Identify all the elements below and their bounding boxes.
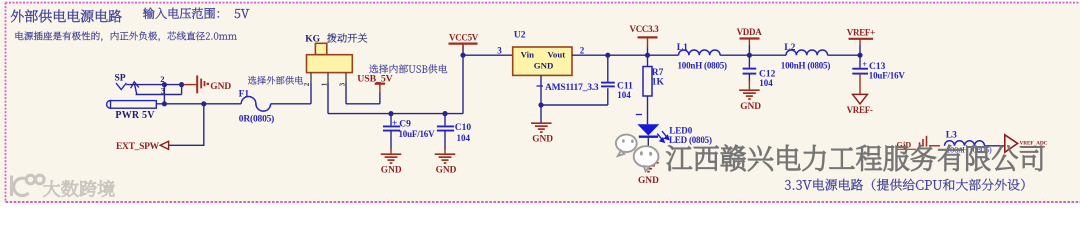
svg-text:AMS1117_3.3: AMS1117_3.3 — [545, 83, 599, 93]
svg-text:EXT_SPW: EXT_SPW — [116, 142, 160, 152]
svg-text:Vin: Vin — [521, 50, 534, 60]
wire VDDA riser — [748, 45, 750, 55]
note 电源插座极性说明 — [16, 31, 237, 41]
watermark logo 大数跨境 — [12, 175, 45, 196]
svg-text:2: 2 — [580, 45, 585, 55]
svg-text:F1: F1 — [239, 90, 250, 100]
svg-text:3: 3 — [497, 45, 502, 55]
svg-text:LED (0805): LED (0805) — [669, 135, 712, 145]
junction U2 GND — [538, 102, 543, 107]
svg-text:+: + — [862, 60, 867, 69]
junction VREF — [857, 53, 862, 58]
svg-text:GND: GND — [210, 82, 231, 92]
wire L2 to VREF — [828, 54, 860, 56]
svg-text:VREF-: VREF- — [847, 105, 873, 115]
wire LED cathode — [647, 137, 649, 163]
wire U2 Vout rail — [572, 54, 679, 56]
power port VREF- — [853, 94, 868, 104]
watermark text 大数跨境 — [43, 180, 114, 197]
watermark text 江西赣兴电力工程服务有限公司 — [666, 145, 1043, 171]
svg-text:VDDA: VDDA — [737, 27, 763, 37]
wire F1 to switch — [271, 103, 311, 105]
resistor R7 — [647, 55, 649, 66]
capacitor C11 — [607, 55, 609, 81]
svg-text:1K: 1K — [652, 78, 665, 88]
wire VCC3.3 to rail — [647, 48, 649, 56]
svg-text:100nH (0805): 100nH (0805) — [781, 61, 831, 71]
wire switch contact — [136, 94, 182, 96]
svg-text:100nH (0805): 100nH (0805) — [678, 61, 728, 71]
junction VCC3.3 — [645, 53, 650, 58]
wire jack output — [156, 103, 241, 105]
capacitor C9 — [390, 114, 392, 126]
wire C11 bottom — [541, 104, 608, 106]
junction VDDA — [747, 53, 752, 58]
port VREF right — [1005, 135, 1018, 152]
inductor L1 — [679, 50, 721, 55]
value AMS1117_3.3 — [537, 85, 544, 87]
regulator U2 body — [513, 47, 572, 75]
inductor L2 — [786, 50, 828, 55]
wire VCC5V riser — [462, 45, 464, 114]
svg-text:GND: GND — [638, 176, 659, 186]
junction C10 — [442, 111, 447, 116]
svg-text:0R(0805): 0R(0805) — [239, 114, 274, 125]
svg-text:GND: GND — [534, 61, 554, 71]
junction C11 — [605, 53, 610, 58]
svg-text:C10: C10 — [455, 123, 472, 133]
annotation 选择内部USB供电 — [369, 64, 447, 73]
svg-text:SP: SP — [115, 73, 126, 83]
wire switch3 to USB — [345, 83, 347, 104]
svg-text:GND: GND — [740, 102, 761, 112]
svg-text:VREF+: VREF+ — [847, 27, 875, 37]
svg-text:3: 3 — [338, 82, 346, 86]
connector SP switch arrow — [135, 85, 137, 95]
power ground GND C10 — [435, 153, 456, 155]
watermark logo bubbles — [616, 135, 659, 172]
wire switch1 to rail — [327, 83, 329, 114]
capacitor C12 — [748, 55, 750, 67]
svg-text:VREF_ADC: VREF_ADC — [1020, 141, 1048, 147]
switch pin 3 stub — [345, 73, 347, 83]
svg-text:VCC3.3: VCC3.3 — [630, 24, 660, 34]
power ground GND C12 — [739, 89, 760, 91]
svg-text:PWR 5V: PWR 5V — [115, 110, 155, 121]
svg-text:10uF/16V: 10uF/16V — [869, 70, 906, 80]
svg-text:GND: GND — [436, 165, 457, 175]
svg-text:Vout: Vout — [547, 50, 565, 60]
comment 拨动开关 — [327, 33, 367, 42]
svg-text:R7: R7 — [652, 68, 664, 78]
svg-text:GND: GND — [532, 134, 553, 144]
svg-text:L2: L2 — [784, 43, 795, 53]
title 外部供电电源电路 — [11, 10, 122, 23]
port EXT_SPW — [160, 141, 168, 149]
svg-text:KG: KG — [305, 35, 320, 45]
power ground GND jack — [183, 84, 197, 86]
svg-text:10uF/16V: 10uF/16V — [399, 129, 436, 139]
svg-text:104: 104 — [759, 78, 773, 88]
wire VREF riser — [859, 45, 861, 55]
svg-text:U2: U2 — [514, 30, 526, 40]
capacitor C10 — [444, 114, 446, 126]
svg-text:104: 104 — [457, 133, 471, 143]
wire to U2 Vin — [463, 54, 513, 56]
annotation 选择外部供电 — [248, 76, 303, 85]
svg-text:104: 104 — [617, 90, 631, 100]
svg-text:L3: L3 — [946, 131, 957, 141]
svg-text:GND: GND — [381, 165, 402, 175]
wire tip to GND — [126, 84, 184, 86]
LED LED0 — [637, 124, 659, 135]
wire U2 GND — [540, 75, 542, 122]
inductor L3 — [945, 141, 985, 146]
power ground GND LED — [638, 162, 659, 164]
power ground GND U2 — [531, 122, 552, 124]
pin tick LED — [636, 114, 642, 116]
wire L3 to port — [985, 145, 1005, 147]
power ground GND C9 — [381, 153, 402, 155]
junction B — [179, 82, 184, 87]
fuse F1 — [241, 96, 270, 111]
subtitle 输入电压范围 5V — [143, 8, 249, 19]
connector SP barrel — [107, 101, 115, 109]
svg-text:VCC5V: VCC5V — [449, 33, 479, 43]
switch pin 1 stub — [310, 73, 312, 83]
wire EXT_SPW drop — [203, 104, 205, 146]
border frame — [6, 2, 1080, 4]
wire pin2 drop — [163, 85, 165, 104]
svg-text:2: 2 — [303, 82, 311, 86]
switch pin 2 stub — [327, 73, 329, 83]
junction D — [201, 101, 206, 106]
connector SP tip contact — [116, 83, 126, 90]
junction C9 — [388, 111, 393, 116]
capacitor C13 — [859, 55, 861, 67]
junction VCC5V — [460, 53, 465, 58]
wire L1 to VDDA — [720, 54, 786, 56]
switch KG body — [315, 43, 326, 54]
caption 3.3V电源电路 — [785, 179, 1025, 191]
junction C — [162, 101, 167, 106]
junction A — [162, 82, 167, 87]
svg-text:GjD: GjD — [897, 141, 912, 150]
svg-text:+: + — [392, 119, 397, 129]
